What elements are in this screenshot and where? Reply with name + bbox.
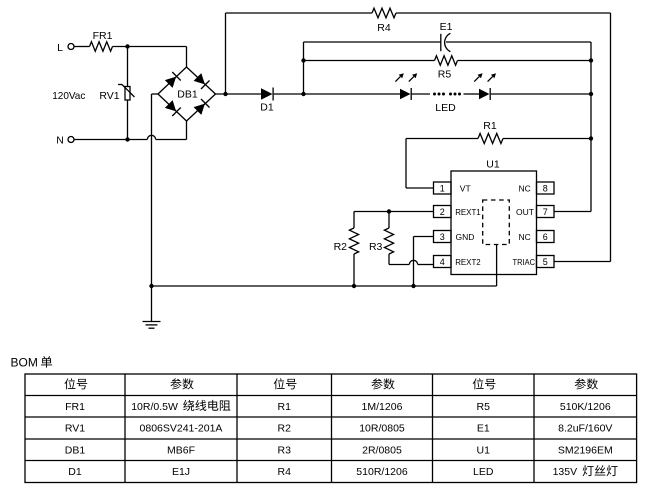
pin name OUT <box>516 207 534 217</box>
BOM title <box>11 356 53 370</box>
wire <box>396 13 611 262</box>
wire <box>354 211 434 213</box>
svg-text:FR1: FR1 <box>93 30 113 42</box>
thermal pad (dashed) <box>483 200 510 245</box>
pin 8 <box>537 182 555 194</box>
svg-text:OUT: OUT <box>516 207 534 217</box>
svg-text:D1: D1 <box>260 101 274 113</box>
wire <box>152 94 159 286</box>
junction <box>589 92 593 96</box>
svg-text:E1: E1 <box>440 21 453 33</box>
svg-text:E1: E1 <box>477 423 490 435</box>
svg-text:LED: LED <box>435 102 456 114</box>
svg-text:GND: GND <box>456 232 475 242</box>
svg-text:LED: LED <box>473 466 494 478</box>
wire <box>503 138 591 140</box>
wire <box>446 42 591 212</box>
svg-text:1M/1206: 1M/1206 <box>362 401 403 413</box>
wire <box>406 138 478 140</box>
resistor FR1 <box>90 30 113 52</box>
svg-text:10R/0805: 10R/0805 <box>359 423 405 435</box>
resistor R5 <box>435 56 458 81</box>
pin 7 <box>537 206 555 218</box>
pin name NC <box>519 232 531 242</box>
pin 1 <box>434 182 452 194</box>
junction <box>125 44 129 48</box>
svg-text:REXT2: REXT2 <box>455 257 481 267</box>
pin name VT <box>460 183 471 193</box>
wire <box>304 41 441 43</box>
pin 2 <box>434 206 452 218</box>
resistor R2 <box>334 212 359 287</box>
svg-text:2: 2 <box>440 207 445 217</box>
BOM row 4 <box>68 465 617 478</box>
svg-text:REXT1: REXT1 <box>455 207 481 217</box>
wire <box>113 47 187 68</box>
svg-text:MB6F: MB6F <box>167 444 195 456</box>
svg-text:R2: R2 <box>334 241 348 253</box>
svg-text:510K/1206: 510K/1206 <box>560 401 611 413</box>
junction <box>589 58 593 62</box>
resistor R1 <box>478 120 503 144</box>
svg-text:6: 6 <box>543 232 548 242</box>
svg-text:7: 7 <box>543 207 548 217</box>
svg-text:10R/0.5W: 10R/0.5W <box>131 401 178 413</box>
pin 5 <box>537 256 555 268</box>
svg-text:FR1: FR1 <box>65 401 85 413</box>
pin name REXT2 <box>455 257 481 267</box>
wire <box>274 93 400 95</box>
svg-text:N: N <box>56 134 64 146</box>
label LED <box>435 102 456 114</box>
svg-text:NC: NC <box>519 183 531 193</box>
BOM row 2 <box>65 423 613 435</box>
junction <box>125 137 129 141</box>
ground <box>143 286 161 328</box>
wire <box>216 93 262 95</box>
wire <box>74 46 90 48</box>
junction <box>149 284 153 288</box>
LED LED1 <box>395 73 417 100</box>
svg-text:SM2196EM: SM2196EM <box>558 444 613 456</box>
svg-text:U1: U1 <box>486 158 500 170</box>
svg-text:D1: D1 <box>68 466 82 478</box>
wire R3 to pin4 with hop <box>389 260 434 264</box>
svg-text:R3: R3 <box>369 241 383 253</box>
wire <box>411 93 430 95</box>
node N terminal <box>56 134 74 146</box>
LED LED2 <box>474 73 496 100</box>
svg-text:U1: U1 <box>477 444 491 456</box>
wire <box>225 13 227 94</box>
IC U1 body <box>451 158 537 274</box>
svg-text:R2: R2 <box>278 423 292 435</box>
junction <box>352 284 356 288</box>
wire <box>304 60 435 62</box>
svg-text:BOM: BOM <box>11 356 38 370</box>
node L terminal <box>57 42 74 54</box>
wire <box>458 60 592 62</box>
junction <box>387 209 391 213</box>
svg-text:3: 3 <box>440 232 445 242</box>
svg-text:RV1: RV1 <box>99 90 119 102</box>
pin 3 <box>434 231 452 243</box>
junction <box>411 284 415 288</box>
pin 6 <box>537 231 555 243</box>
svg-text:R5: R5 <box>438 69 452 81</box>
junction <box>301 92 305 96</box>
svg-text:NC: NC <box>519 232 531 242</box>
BOM row 1 <box>65 400 611 413</box>
svg-text:R1: R1 <box>278 401 292 413</box>
svg-text:510R/1206: 510R/1206 <box>356 466 408 478</box>
svg-text:8.2uF/160V: 8.2uF/160V <box>558 423 612 435</box>
pin name NC <box>519 183 531 193</box>
svg-text:1: 1 <box>440 183 445 193</box>
svg-text:4: 4 <box>440 257 445 267</box>
svg-text:R1: R1 <box>483 120 497 132</box>
resistor R4 <box>372 8 396 34</box>
varistor RV1 <box>99 85 134 103</box>
wire <box>491 93 591 95</box>
svg-text:0806SV241-201A: 0806SV241-201A <box>140 423 223 435</box>
svg-text:TRIAC: TRIAC <box>513 257 536 267</box>
wire ground rail <box>152 285 497 287</box>
svg-text:135V: 135V <box>553 466 578 478</box>
wire <box>127 47 129 87</box>
svg-text:R3: R3 <box>278 444 292 456</box>
pin name GND <box>456 232 475 242</box>
wire <box>496 245 498 287</box>
junction <box>589 136 593 140</box>
resistor R3 <box>369 212 394 265</box>
svg-text:E1J: E1J <box>172 466 190 478</box>
svg-text:120Vac: 120Vac <box>52 90 85 102</box>
wire top rail <box>226 12 373 14</box>
svg-text:R5: R5 <box>477 401 491 413</box>
capacitor E1 <box>440 21 453 52</box>
pin name REXT1 <box>455 207 481 217</box>
svg-text:R4: R4 <box>278 466 292 478</box>
wire <box>303 42 305 94</box>
diode D1 <box>260 88 274 114</box>
svg-text:2R/0805: 2R/0805 <box>362 444 402 456</box>
pin name TRIAC <box>513 257 536 267</box>
svg-text:8: 8 <box>543 183 548 193</box>
pin 4 <box>434 256 452 268</box>
junction <box>301 58 305 62</box>
svg-text:DB1: DB1 <box>177 88 198 100</box>
svg-text:L: L <box>57 42 63 54</box>
svg-text:DB1: DB1 <box>65 444 86 456</box>
svg-text:5: 5 <box>543 257 548 267</box>
wire <box>127 100 129 140</box>
BOM row 3 <box>65 444 613 456</box>
wire <box>464 93 480 95</box>
BOM header row <box>64 378 598 389</box>
bridge rectifier DB1 <box>158 67 216 121</box>
LED string ellipsis <box>433 93 461 96</box>
svg-text:RV1: RV1 <box>65 423 85 435</box>
svg-text:R4: R4 <box>377 22 391 34</box>
source label 120Vac <box>52 90 85 102</box>
wire <box>414 237 434 287</box>
BOM table grid <box>25 374 637 483</box>
junction <box>223 92 227 96</box>
svg-text:VT: VT <box>460 183 471 193</box>
wire <box>406 139 434 189</box>
wire N line with hop <box>74 121 187 140</box>
